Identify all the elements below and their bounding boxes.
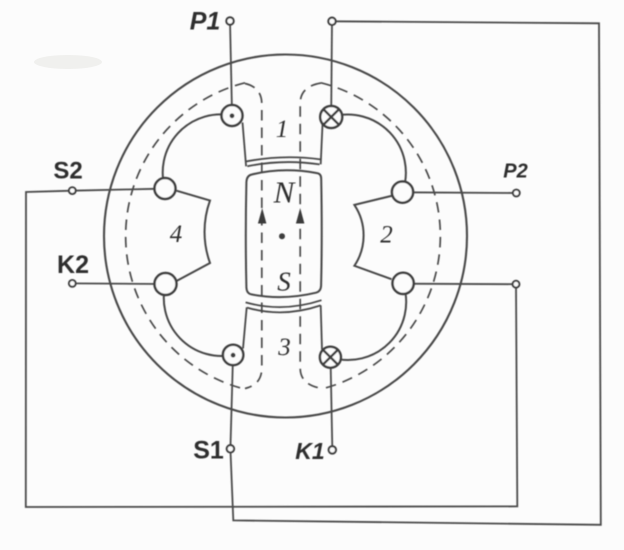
svg-text:P1: P1 [190, 8, 221, 36]
terminal top-right [328, 18, 335, 25]
svg-text:K2: K2 [57, 251, 89, 279]
svg-text:S1: S1 [193, 437, 224, 465]
conductor dot pole3 left [223, 345, 243, 365]
wire K2 to pole4 bottom conductor [72, 282, 161, 285]
pole 3 shoe face lower arc [247, 305, 321, 312]
flux arrow right [296, 208, 305, 224]
pole 1 shoe face lower arc [247, 162, 319, 166]
conductor cross pole1 right [320, 106, 342, 128]
terminal K1 [329, 446, 336, 453]
conductor cross pole3 right [320, 347, 341, 368]
conductor plain pole2 bottom [393, 273, 414, 294]
svg-text:4: 4 [170, 221, 183, 248]
svg-text:S: S [277, 267, 291, 297]
pole 3 inner edge right [321, 305, 322, 349]
conductor plain pole4 top [155, 178, 176, 199]
stator bore arc bottom-left [164, 284, 233, 356]
wire K1 to pole3 cross conductor [331, 362, 333, 448]
terminal P1 [226, 17, 233, 24]
svg-text:1: 1 [276, 116, 289, 143]
terminal K2 [69, 280, 76, 287]
svg-text:3: 3 [277, 334, 291, 361]
pole 2 body [354, 196, 391, 279]
svg-text:P2: P2 [503, 161, 527, 183]
terminal P2 [513, 190, 520, 197]
stator bore arc top-right [331, 115, 406, 192]
dashed flux line right vertical [300, 83, 321, 388]
svg-text:K1: K1 [295, 438, 324, 464]
pole 1 inner edge right [321, 125, 323, 165]
wire right-mid terminal around bottom and left side to S2 and pole4 top conductor [26, 189, 518, 507]
flux arrow left [258, 208, 267, 224]
wire P1 to top-left conductor [230, 21, 232, 112]
pole 1 shoe face upper arc [246, 157, 321, 161]
conductor dot pole1 left [222, 105, 243, 126]
wire P2 to pole2 top conductor [403, 191, 516, 194]
stator bore arc top-left [163, 114, 232, 188]
rotor magnet body [246, 170, 322, 297]
wire top-right terminal around right side to S1 and pole3 dot conductor [230, 21, 600, 525]
rotor center dot [279, 233, 285, 239]
pole 3 shoe face upper arc [246, 300, 322, 307]
dashed flux ring right arc [321, 83, 440, 389]
terminal S1 [227, 445, 234, 452]
pole 4 body [177, 191, 211, 281]
svg-text:2: 2 [380, 221, 393, 248]
conductor plain pole2 top [392, 182, 413, 203]
scan smudge top-left [34, 55, 102, 69]
terminal right-mid [513, 281, 520, 288]
wire top-right terminal to cross conductor [330, 21, 333, 112]
pole 1 inner edge left [243, 123, 247, 167]
dashed flux line left vertical [245, 84, 262, 389]
svg-text:S2: S2 [53, 157, 82, 184]
stator bore arc bottom-right [330, 283, 406, 360]
dashed flux ring left arc [126, 83, 245, 389]
conductor plain pole4 bottom [155, 273, 177, 295]
terminal S2 [69, 187, 76, 194]
pole 3 inner edge left [243, 307, 247, 348]
stator outer circle [104, 55, 467, 418]
svg-text:N: N [273, 174, 297, 209]
